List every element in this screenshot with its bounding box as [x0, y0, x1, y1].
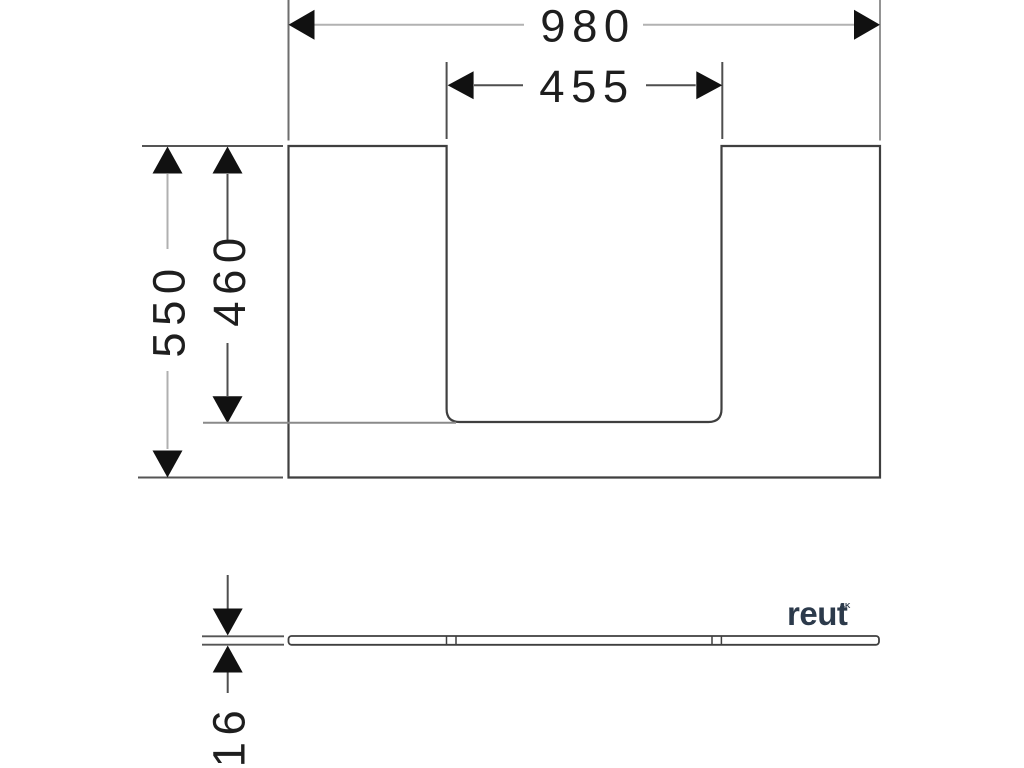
dimension line 16 upper segment [227, 575, 229, 609]
extension line bottom for 550 [138, 477, 283, 479]
arrowhead 980 right [854, 10, 880, 40]
panel top-view outline [289, 146, 881, 478]
arrowhead 980 left [289, 10, 315, 40]
side-view divider at notch left outer [446, 636, 448, 645]
side-view divider at notch right inner [711, 636, 713, 645]
extension line right for 980 [879, 0, 881, 141]
dimension line 460 lower segment [227, 343, 229, 396]
dimension line 455 right segment [646, 84, 696, 86]
dimension line 460 upper segment [227, 174, 229, 242]
dimension line 550 lower segment [167, 371, 169, 449]
svg-text:550: 550 [144, 262, 195, 357]
panel side-view bar [289, 636, 880, 645]
extension line top for 16 [202, 635, 284, 637]
extension line right for 455 [721, 62, 723, 139]
arrowhead 455 left [448, 71, 474, 99]
arrowhead 16 upper [213, 609, 243, 636]
svg-text:16: 16 [204, 704, 255, 768]
svg-text:reut: reut [787, 595, 848, 632]
svg-text:460: 460 [204, 231, 255, 326]
extension line for 460 at notch bottom [203, 422, 456, 424]
arrowhead 460 top [213, 147, 243, 174]
dimension line 455 left segment [474, 84, 523, 86]
side-view divider at notch left inner [455, 636, 457, 645]
dimension line 980 left segment [302, 24, 524, 26]
arrowhead 460 bottom [213, 396, 243, 423]
extension line bottom for 16 [202, 644, 284, 646]
svg-text:980: 980 [540, 1, 635, 52]
dimension line 16 lower segment [227, 673, 229, 694]
extension line left for 980 [288, 0, 290, 141]
dimension line 550 upper segment [167, 174, 169, 249]
arrowhead 550 top [153, 147, 183, 174]
side-view divider at notch right outer [720, 636, 722, 645]
arrowhead 550 bottom [153, 451, 183, 478]
extension line left for 455 [446, 62, 448, 139]
arrowhead 455 right [696, 71, 722, 99]
arrowhead 16 lower [213, 646, 243, 673]
dimension line 980 right segment [643, 24, 866, 26]
svg-text:SK: SK [840, 601, 851, 610]
extension line top for 550/460 [142, 145, 283, 147]
svg-text:455: 455 [539, 61, 634, 112]
